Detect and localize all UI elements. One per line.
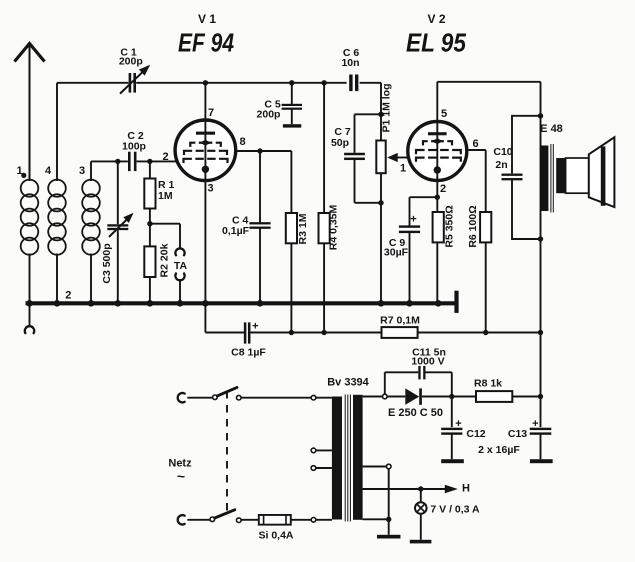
svg-text:100p: 100p (122, 141, 146, 153)
svg-text:+: + (532, 418, 538, 430)
svg-text:0,1µF: 0,1µF (222, 225, 250, 237)
svg-text:C3 500p: C3 500p (101, 243, 113, 283)
svg-text:+: + (410, 214, 416, 226)
svg-text:R6 100Ω: R6 100Ω (467, 205, 479, 247)
svg-text:1000 V: 1000 V (411, 356, 444, 368)
svg-text:+: + (252, 321, 258, 333)
svg-text:C13: C13 (508, 428, 527, 440)
svg-text:R2 20k: R2 20k (159, 243, 171, 277)
svg-text:+: + (455, 418, 461, 430)
svg-text:EL 95: EL 95 (406, 28, 466, 58)
svg-text:8: 8 (239, 136, 245, 148)
svg-text:H: H (462, 483, 470, 495)
svg-text:1: 1 (400, 163, 406, 175)
svg-text:R8 1k: R8 1k (474, 378, 502, 390)
svg-text:E 250 C 50: E 250 C 50 (388, 407, 443, 419)
svg-text:7: 7 (208, 107, 214, 119)
svg-text:C12: C12 (466, 428, 485, 440)
svg-text:2n: 2n (495, 159, 507, 171)
svg-text:R3 1M: R3 1M (297, 213, 309, 244)
svg-text:TA: TA (174, 260, 188, 272)
svg-text:2: 2 (162, 151, 168, 163)
svg-text:1M: 1M (158, 190, 173, 202)
svg-text:2: 2 (65, 290, 71, 302)
svg-text:Bv 3394: Bv 3394 (327, 376, 369, 388)
svg-text:P1 1M log: P1 1M log (381, 83, 393, 132)
svg-text:~: ~ (177, 468, 185, 484)
svg-text:V 1: V 1 (198, 12, 216, 26)
svg-text:4: 4 (45, 165, 52, 177)
svg-text:R5 350Ω: R5 350Ω (443, 205, 455, 247)
svg-text:2: 2 (440, 183, 446, 195)
svg-text:200p: 200p (257, 109, 281, 121)
svg-text:V 2: V 2 (427, 12, 445, 26)
svg-text:1: 1 (16, 165, 22, 177)
svg-text:3: 3 (79, 165, 85, 177)
svg-text:10n: 10n (341, 57, 359, 69)
svg-text:EF 94: EF 94 (178, 28, 234, 58)
svg-text:50p: 50p (331, 137, 349, 149)
svg-text:7 V / 0,3 A: 7 V / 0,3 A (430, 504, 480, 516)
svg-text:E 48: E 48 (540, 123, 563, 135)
svg-text:5: 5 (441, 108, 447, 120)
svg-text:C10: C10 (493, 146, 512, 158)
svg-text:Si 0,4A: Si 0,4A (258, 529, 293, 541)
svg-text:30µF: 30µF (384, 247, 409, 259)
svg-text:C8 1µF: C8 1µF (231, 346, 266, 358)
svg-text:R7 0,1M: R7 0,1M (380, 315, 420, 327)
svg-text:6: 6 (472, 138, 478, 150)
svg-text:2 x 16µF: 2 x 16µF (478, 444, 520, 456)
svg-text:3: 3 (207, 183, 213, 195)
svg-text:200p: 200p (119, 55, 143, 67)
svg-text:R4 0,35M: R4 0,35M (328, 204, 340, 250)
